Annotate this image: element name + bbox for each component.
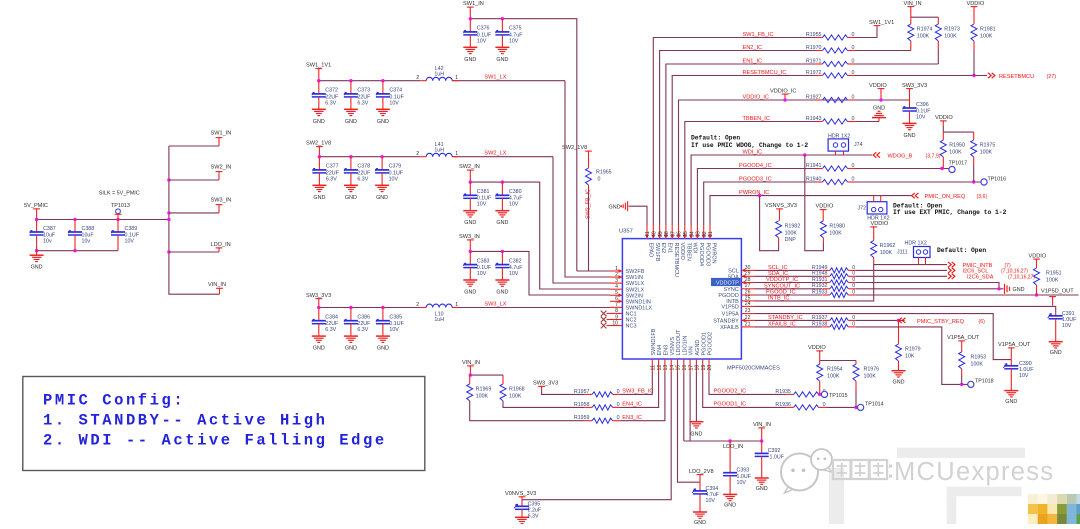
svg-text:GND: GND xyxy=(690,432,702,438)
svg-text:VSNVS: VSNVS xyxy=(670,337,676,356)
pin 39 EN2 (top) xyxy=(658,225,667,253)
junction xyxy=(167,218,170,221)
node SW2_LX xyxy=(484,151,506,157)
svg-text:EN3_IC: EN3_IC xyxy=(622,415,642,421)
svg-text:SYNC: SYNC xyxy=(724,287,739,293)
svg-text:0: 0 xyxy=(852,94,855,100)
node SW3_IN xyxy=(459,234,480,251)
svg-text:1.0UF: 1.0UF xyxy=(737,474,752,480)
svg-text:RESETBMCU: RESETBMCU xyxy=(673,243,679,278)
wire pullup tee2 xyxy=(943,126,973,140)
svg-text:VIN: VIN xyxy=(689,346,695,355)
svg-text:PWRON: PWRON xyxy=(711,243,717,264)
wire input bus xyxy=(169,146,220,294)
svg-text:EN1_IC: EN1_IC xyxy=(743,58,763,64)
junction xyxy=(758,194,761,197)
svg-text:10V: 10V xyxy=(389,176,399,182)
svg-text:37: 37 xyxy=(670,231,676,237)
pin 25 INTB xyxy=(726,295,755,305)
node SW3_FB_IC xyxy=(622,389,653,395)
wire XFAILB to TP1018 xyxy=(856,327,968,386)
wire WDI pullup xyxy=(805,155,824,251)
svg-text:SW3_3V3: SW3_3V3 xyxy=(306,293,331,299)
node V1P5A_OUT (C390) xyxy=(998,342,1031,360)
svg-text:GND: GND xyxy=(464,220,476,226)
svg-text:6.3V: 6.3V xyxy=(357,100,368,106)
pin 17 VIN (bottom) xyxy=(688,346,694,372)
node PGOOD4_IC xyxy=(739,163,772,169)
svg-text:0: 0 xyxy=(852,32,855,38)
svg-text:MCUexpress: MCUexpress xyxy=(894,458,1054,486)
node VIN_IN (bottom left) xyxy=(462,360,480,375)
svg-text:TP1013: TP1013 xyxy=(111,203,130,209)
ground (C390) xyxy=(1004,391,1018,406)
svg-text:EN2_IC: EN2_IC xyxy=(743,45,763,51)
wire V1P5D row xyxy=(755,306,1056,312)
node VIN_IN (bus) xyxy=(208,282,226,294)
svg-text:10V: 10V xyxy=(916,114,926,120)
svg-text:PMIC Config:: PMIC Config: xyxy=(43,392,185,410)
off-page I2C6_SCL xyxy=(948,268,1028,275)
svg-text:SILK = 5V_PMIC: SILK = 5V_PMIC xyxy=(99,191,140,197)
svg-text:VDDIO: VDDIO xyxy=(967,1,985,7)
capacitor C387 xyxy=(30,220,56,251)
note PMIC Config box xyxy=(23,377,425,471)
svg-text:(27): (27) xyxy=(1047,74,1057,80)
wire EN2_IC row xyxy=(660,51,815,226)
svg-text:100K: 100K xyxy=(827,374,840,380)
svg-text:13: 13 xyxy=(663,365,669,371)
node TBBEN_IC xyxy=(743,116,770,122)
svg-text:SW3_3V3: SW3_3V3 xyxy=(533,381,558,387)
svg-text:VDDIO: VDDIO xyxy=(869,83,887,89)
junction xyxy=(167,211,170,214)
capacitor C382 xyxy=(495,251,523,295)
pin 8 NC1 xyxy=(601,308,637,317)
wire SW2_1V8 rail xyxy=(319,157,610,283)
svg-text:R1955: R1955 xyxy=(806,32,822,38)
node 5V_PMIC xyxy=(24,203,48,220)
svg-text:TBBEN_IC: TBBEN_IC xyxy=(743,116,770,122)
node EN4_IC xyxy=(622,402,642,408)
svg-text:R1959: R1959 xyxy=(574,415,590,421)
node SW1_FB_IC xyxy=(743,32,774,38)
svg-text:32: 32 xyxy=(702,231,708,237)
inductor L10 xyxy=(416,302,458,323)
resistor R1940 xyxy=(806,176,855,184)
svg-text:10V: 10V xyxy=(125,238,135,244)
node LDO_2V8 xyxy=(689,469,714,482)
node VDDIO (mid) xyxy=(869,83,887,102)
node SW2_IN xyxy=(459,164,480,182)
svg-text:WDOG_B: WDOG_B xyxy=(888,154,913,160)
watermark gray shapes xyxy=(829,448,1025,524)
svg-text:EN1: EN1 xyxy=(667,243,673,254)
capacitor C395 xyxy=(514,500,542,520)
test point TP1015 xyxy=(821,391,847,399)
node VSNVS_3V3 xyxy=(765,203,797,221)
off-page PMIC_INTB xyxy=(948,262,1011,269)
svg-text:U357: U357 xyxy=(619,229,633,235)
svg-text:Default: Open: Default: Open xyxy=(937,247,986,254)
watermark wechat id text xyxy=(833,458,1054,486)
resistor R1970 xyxy=(806,45,855,53)
svg-text:100K: 100K xyxy=(829,230,842,236)
svg-text:SW3_IN: SW3_IN xyxy=(211,198,232,204)
junction xyxy=(167,250,170,253)
svg-text:C392: C392 xyxy=(768,448,781,454)
node LDO_IN (bus) xyxy=(169,242,231,252)
wire VIN pin17 xyxy=(689,372,691,441)
pin 3 SW1LX xyxy=(610,278,644,287)
svg-text:10v: 10v xyxy=(82,238,91,244)
svg-text:GND: GND xyxy=(313,119,325,125)
pin 41 EPAD (top) xyxy=(645,225,654,257)
svg-text:C372: C372 xyxy=(325,88,338,94)
svg-text:14: 14 xyxy=(669,365,675,371)
pin 24 V1P5D xyxy=(721,301,755,311)
svg-text:SW2_1V8: SW2_1V8 xyxy=(562,145,587,151)
inductor L42 xyxy=(416,66,458,81)
svg-text:GND: GND xyxy=(313,346,325,352)
resistor R1927 xyxy=(806,94,855,102)
svg-text:41: 41 xyxy=(645,231,651,237)
pin 16 LDO1IN (bottom) xyxy=(682,336,688,372)
wire RESETBMCU_IC row xyxy=(672,76,815,226)
svg-text:R1970: R1970 xyxy=(806,45,822,51)
svg-text:PGOOD3: PGOOD3 xyxy=(704,243,710,267)
test point TP1014 xyxy=(858,402,884,411)
svg-text:J111: J111 xyxy=(897,249,908,255)
node EN1_IC xyxy=(743,58,763,64)
svg-text:R1973: R1973 xyxy=(944,27,960,33)
wire PGOOD_IC row xyxy=(755,294,822,296)
svg-text:TP1015: TP1015 xyxy=(829,393,848,399)
svg-text:VDDIO: VDDIO xyxy=(1029,253,1047,259)
wire SYNC to GND xyxy=(856,287,1004,290)
wire SW3_IN rail xyxy=(470,251,610,295)
svg-text:GND: GND xyxy=(496,290,508,296)
svg-text:27: 27 xyxy=(745,283,751,289)
node PGOOD1_IC xyxy=(714,402,747,408)
svg-text:(3,7,9): (3,7,9) xyxy=(926,154,941,160)
wire WDI_IC row xyxy=(691,155,872,225)
svg-text:(7): (7) xyxy=(1005,263,1011,269)
svg-text:2. WDI -- Active Falling Edge: 2. WDI -- Active Falling Edge xyxy=(43,432,387,450)
svg-text:SW1_1V1: SW1_1V1 xyxy=(306,63,331,69)
connector J72 HDR 1X2 xyxy=(858,196,890,222)
pin 21 XFAILB xyxy=(720,321,755,331)
svg-text:STANDBY_IC: STANDBY_IC xyxy=(768,315,803,321)
node SW3_3V3 xyxy=(306,293,331,308)
resistor R1971 xyxy=(806,58,855,66)
svg-text:GND: GND xyxy=(345,346,357,352)
svg-text:C389: C389 xyxy=(125,226,138,232)
svg-text:GND: GND xyxy=(345,119,357,125)
resistor R1974 xyxy=(908,24,933,51)
node VDDIO (R1950/R1975) xyxy=(935,115,953,126)
svg-text:GND: GND xyxy=(496,57,508,63)
svg-text:R1936: R1936 xyxy=(775,402,791,408)
svg-text:1.0UF: 1.0UF xyxy=(770,455,785,461)
svg-text:GND: GND xyxy=(376,195,388,201)
svg-text:GND: GND xyxy=(464,57,476,63)
svg-text:R1954: R1954 xyxy=(827,367,843,373)
svg-text:R1940: R1940 xyxy=(806,176,822,182)
svg-text:0: 0 xyxy=(617,402,620,408)
svg-text:28: 28 xyxy=(745,277,751,283)
wire to RESETBMCU offpage xyxy=(855,74,987,77)
resistor R1980 xyxy=(820,221,845,243)
capacitor C393 xyxy=(723,441,752,494)
connector J74 HDR 1X2 xyxy=(828,133,863,155)
wire SW1_1V1 rail xyxy=(319,81,610,277)
resistor R1965 xyxy=(586,158,612,190)
svg-text:C382: C382 xyxy=(509,258,522,264)
capacitor C372 xyxy=(312,81,339,125)
svg-text:V1P5A: V1P5A xyxy=(722,312,739,318)
svg-text:2.2uF: 2.2uF xyxy=(528,507,542,513)
test point TP1018 xyxy=(968,379,994,388)
svg-text:1: 1 xyxy=(455,75,458,81)
svg-text:VIN_IN: VIN_IN xyxy=(462,360,480,366)
svg-text:GND: GND xyxy=(1050,350,1062,356)
op-amp U357 PMIC body xyxy=(619,229,741,360)
pin 12 EN4 (bottom) xyxy=(657,345,663,372)
wire to TP1017 xyxy=(855,167,949,170)
svg-text:GND: GND xyxy=(1005,399,1017,405)
svg-text:C373: C373 xyxy=(357,88,370,94)
svg-text:TP1014: TP1014 xyxy=(865,402,884,408)
svg-text:R1932: R1932 xyxy=(812,283,828,289)
wire SW1_IN rail xyxy=(470,19,610,271)
inductor L41 xyxy=(416,142,458,157)
node VDDIO (R1980) xyxy=(816,204,834,221)
svg-text:6.3V: 6.3V xyxy=(528,514,539,520)
wire PWRON_IC row xyxy=(710,196,912,225)
junction xyxy=(35,218,38,221)
svg-text:SW1_FB_IC: SW1_FB_IC xyxy=(743,32,774,38)
svg-text:10: 10 xyxy=(612,320,618,326)
node SW3_LX xyxy=(484,302,506,308)
svg-text:0: 0 xyxy=(617,415,620,421)
junction xyxy=(469,17,472,20)
svg-text:23: 23 xyxy=(745,308,751,314)
wire XFAILB_IC row xyxy=(755,326,822,328)
svg-text:39: 39 xyxy=(658,231,664,237)
svg-text:0: 0 xyxy=(617,389,620,395)
junction xyxy=(73,218,76,221)
svg-text:VDDIO: VDDIO xyxy=(679,243,685,261)
svg-text:PMIC_INTB: PMIC_INTB xyxy=(963,263,993,269)
svg-text:WDI: WDI xyxy=(692,243,698,254)
svg-text:35: 35 xyxy=(683,231,689,237)
svg-text:38: 38 xyxy=(664,231,670,237)
wire STANDBY_IC row xyxy=(755,319,822,321)
svg-text:R1975: R1975 xyxy=(980,143,996,149)
svg-text:R1935: R1935 xyxy=(775,389,791,395)
node EN3_IC xyxy=(622,415,642,421)
svg-text:If use EXT PMIC, Change to 1-: If use EXT PMIC, Change to 1-2 xyxy=(893,209,1007,216)
svg-text:10V: 10V xyxy=(509,271,519,277)
pin 4 SW2LX xyxy=(610,284,644,293)
capacitor C384 xyxy=(312,308,339,352)
svg-text:V1P5A_OUT: V1P5A_OUT xyxy=(998,342,1031,348)
svg-text:0: 0 xyxy=(852,315,855,321)
svg-text:0: 0 xyxy=(823,402,826,408)
svg-text:100K: 100K xyxy=(785,230,798,236)
svg-text:GND: GND xyxy=(496,220,508,226)
junction xyxy=(349,306,352,309)
svg-text:R1972: R1972 xyxy=(806,70,822,76)
resistor R1951 xyxy=(1034,268,1062,295)
svg-text:R1974: R1974 xyxy=(917,27,933,33)
wire to TP1016 xyxy=(855,180,981,183)
svg-text:V1P5A_OUT: V1P5A_OUT xyxy=(947,335,980,341)
svg-text:5V_PMIC: 5V_PMIC xyxy=(24,203,48,209)
resistor R1954 xyxy=(817,364,843,394)
svg-text:EN4_IC: EN4_IC xyxy=(622,402,642,408)
svg-text:PGOOD1_IC: PGOOD1_IC xyxy=(714,402,747,408)
wire SW2_FB_IC xyxy=(586,189,610,271)
wire SYNCOUT_IC row xyxy=(755,288,822,290)
wire PWRON pullup xyxy=(760,196,779,251)
wire V1P5A row xyxy=(755,314,1011,360)
off-page I2C6_SDA xyxy=(948,274,1035,281)
node PWRON_IC xyxy=(739,190,769,196)
svg-text:21: 21 xyxy=(745,321,751,327)
pin 27 SYNC xyxy=(724,283,755,293)
note PMIC WDOG xyxy=(691,135,808,150)
svg-text:22: 22 xyxy=(745,315,751,321)
pin 2 SW1IN xyxy=(610,272,643,281)
capacitor C386 xyxy=(344,308,371,352)
svg-text:10V: 10V xyxy=(706,498,716,504)
svg-text:VIN_IN: VIN_IN xyxy=(904,1,922,7)
pin 33 PGOOD4 (top) xyxy=(696,225,705,266)
wire SDA_IC row xyxy=(755,275,822,277)
svg-text:R1982: R1982 xyxy=(785,223,801,229)
svg-text:24: 24 xyxy=(745,301,751,307)
node RESETBMCU_IC xyxy=(743,70,787,76)
wire EN3 to pin13 xyxy=(620,372,665,421)
svg-text:R1927: R1927 xyxy=(806,94,822,100)
svg-text:17: 17 xyxy=(688,365,694,371)
svg-text:VDDIO: VDDIO xyxy=(808,345,826,351)
svg-text:GND: GND xyxy=(345,195,357,201)
wire PGOOD4_IC row xyxy=(697,169,815,226)
pin 31 PWRON (top) xyxy=(708,225,717,264)
node LDO_IN xyxy=(723,439,743,450)
wire EN2 to R1974 xyxy=(855,50,911,52)
ground (C393) xyxy=(723,494,737,508)
node SW1_IN (bus) xyxy=(169,131,231,147)
capacitor C378 xyxy=(344,157,371,201)
ground (C395) xyxy=(515,517,529,523)
wire SDA to offpage xyxy=(856,275,947,277)
svg-text:29: 29 xyxy=(745,271,751,277)
svg-text:SDA_IC: SDA_IC xyxy=(768,271,788,277)
svg-text:GND: GND xyxy=(756,486,768,492)
junction xyxy=(317,306,320,309)
svg-text:C380: C380 xyxy=(509,189,522,195)
resistor R1958 xyxy=(574,402,620,410)
svg-text:GND: GND xyxy=(377,346,389,352)
svg-text:0: 0 xyxy=(852,58,855,64)
svg-text:R1941: R1941 xyxy=(806,163,822,169)
resistor R1949 xyxy=(812,265,856,273)
node VDDIO (J72) xyxy=(870,221,889,233)
node SW1_IN (top) xyxy=(463,1,484,19)
junction xyxy=(469,180,472,183)
svg-text:0: 0 xyxy=(852,116,855,122)
pin 34 WDI (top) xyxy=(689,225,698,254)
resistor R1935 xyxy=(775,389,826,397)
node SW3_3V3 (mid) xyxy=(902,83,927,100)
svg-text:GND: GND xyxy=(873,105,885,111)
svg-text:33: 33 xyxy=(696,231,702,237)
svg-text:(7,10,16,27): (7,10,16,27) xyxy=(1008,275,1035,281)
svg-text:INTB_IC: INTB_IC xyxy=(768,295,789,301)
svg-text:C385: C385 xyxy=(389,315,402,321)
svg-text:1. STANDBY-- Active High: 1. STANDBY-- Active High xyxy=(43,412,327,430)
svg-text:0: 0 xyxy=(852,277,855,283)
svg-text:NC3: NC3 xyxy=(626,324,637,330)
svg-text:SW3_IN: SW3_IN xyxy=(459,234,480,240)
capacitor C380 xyxy=(495,182,523,226)
svg-text:SW1_IN: SW1_IN xyxy=(463,1,484,7)
svg-text:40: 40 xyxy=(652,231,658,237)
svg-text:VDDIO_IC: VDDIO_IC xyxy=(770,88,796,94)
svg-text:6.3V: 6.3V xyxy=(357,327,368,333)
svg-text:100K: 100K xyxy=(476,393,489,399)
svg-text:R1938: R1938 xyxy=(812,321,828,327)
wire LDO1OUT xyxy=(678,372,701,482)
test point TP1016 xyxy=(981,176,1006,185)
svg-text:100K: 100K xyxy=(1046,278,1059,284)
node VDDIO_IC (stub) xyxy=(770,88,796,101)
svg-text:R1948: R1948 xyxy=(812,271,828,277)
svg-text:10V: 10V xyxy=(477,271,487,277)
svg-text:C384: C384 xyxy=(325,315,338,321)
resistor R1953 xyxy=(959,352,986,385)
wire VDDOTP jog xyxy=(856,283,999,289)
pin 40 SW1FB (top) xyxy=(651,225,660,262)
pin 29 SDA xyxy=(727,271,755,281)
svg-text:PMIC_ON_REQ: PMIC_ON_REQ xyxy=(925,194,966,200)
svg-text:GND: GND xyxy=(377,119,389,125)
svg-text:10K: 10K xyxy=(905,354,915,360)
wire INTB_IC row xyxy=(755,265,947,301)
pin 7 SWND1LX xyxy=(610,302,652,311)
pin 13 EN3 (bottom) xyxy=(663,345,669,372)
pin 10 NC3 xyxy=(601,320,637,329)
svg-text:WDI_IC: WDI_IC xyxy=(743,149,763,155)
svg-text:0: 0 xyxy=(852,289,855,295)
svg-text:LDO_2V8: LDO_2V8 xyxy=(689,469,714,475)
svg-text:V1P5D: V1P5D xyxy=(721,305,738,311)
node EN2_IC xyxy=(743,45,763,51)
svg-text:10V: 10V xyxy=(1062,323,1072,329)
svg-text:SW3_LX: SW3_LX xyxy=(484,302,506,308)
test point TP1013 xyxy=(99,191,140,220)
svg-text:PGOOD2_IC: PGOOD2_IC xyxy=(714,389,747,395)
node STANDBY_IC xyxy=(768,315,803,321)
capacitor C392 xyxy=(755,441,785,478)
svg-text:1uH: 1uH xyxy=(434,148,444,154)
svg-text:TP1018: TP1018 xyxy=(975,379,994,385)
ground (C391) xyxy=(1049,342,1063,357)
